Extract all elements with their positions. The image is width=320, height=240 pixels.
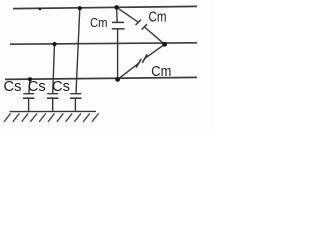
svg-text:Cs: Cs [4, 79, 22, 95]
svg-text:Cm: Cm [149, 9, 167, 25]
svg-text:Cm: Cm [90, 15, 108, 30]
svg-text:Cs: Cs [52, 79, 70, 95]
svg-text:Cm: Cm [151, 63, 171, 80]
svg-text:Cs: Cs [28, 79, 46, 95]
